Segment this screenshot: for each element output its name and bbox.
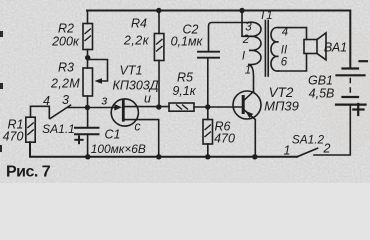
- svg-text:0,1мк: 0,1мк: [171, 35, 204, 49]
- svg-text:4: 4: [43, 94, 50, 108]
- svg-text:II: II: [281, 45, 288, 57]
- svg-text:R4: R4: [131, 17, 147, 31]
- svg-text:3: 3: [62, 93, 69, 107]
- svg-text:470: 470: [3, 130, 24, 144]
- svg-text:з: з: [101, 94, 108, 108]
- svg-text:С1: С1: [105, 127, 121, 141]
- svg-text:2,2к: 2,2к: [123, 34, 150, 48]
- svg-text:R5: R5: [177, 71, 193, 85]
- svg-text:МП39: МП39: [264, 98, 299, 113]
- svg-text:GВ1: GВ1: [308, 74, 333, 88]
- svg-text:R3: R3: [58, 61, 74, 75]
- svg-text:R2: R2: [58, 22, 74, 36]
- svg-text:1: 1: [284, 144, 291, 158]
- svg-text:ВА1: ВА1: [324, 41, 347, 55]
- svg-text:200к: 200к: [51, 35, 80, 49]
- svg-text:470: 470: [214, 132, 235, 146]
- svg-text:6: 6: [281, 57, 288, 69]
- svg-text:2: 2: [242, 34, 250, 46]
- svg-text:4: 4: [282, 27, 288, 39]
- svg-text:и: и: [144, 92, 151, 106]
- svg-text:с: с: [134, 120, 141, 134]
- svg-text:100мк×6В: 100мк×6В: [91, 142, 146, 156]
- svg-text:Т1: Т1: [259, 10, 272, 22]
- svg-text:2,2М: 2,2М: [50, 77, 80, 91]
- svg-text:9,1к: 9,1к: [172, 84, 196, 98]
- svg-text:1: 1: [245, 65, 251, 77]
- svg-text:4,5В: 4,5В: [309, 87, 335, 101]
- svg-text:Рис. 7: Рис. 7: [6, 164, 51, 181]
- svg-text:SA1.2: SA1.2: [292, 132, 325, 146]
- svg-text:VT1: VT1: [120, 64, 143, 78]
- svg-text:SA1.1: SA1.1: [42, 122, 75, 136]
- svg-text:КП303Д: КП303Д: [112, 79, 158, 93]
- svg-text:2: 2: [323, 142, 331, 156]
- svg-text:3: 3: [245, 22, 252, 34]
